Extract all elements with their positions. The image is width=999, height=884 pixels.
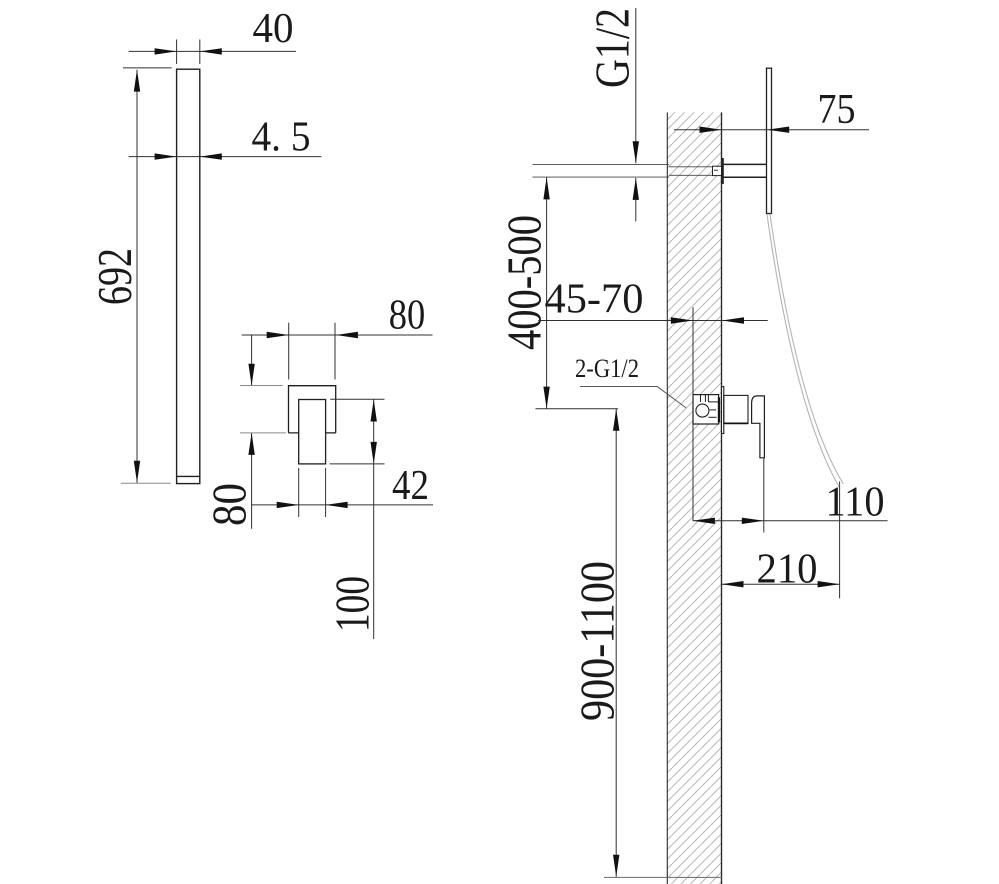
dim 692 [121,68,172,483]
pipe wall flange [722,158,724,184]
wall section with hatching [667,112,721,884]
dim 100 [330,399,385,639]
dim 45-70 [538,320,768,322]
extension ticks above spout panel [177,40,200,65]
svg-text:110: 110 [826,480,885,526]
mixer valve body in wall [693,395,719,424]
valve trim plate side [722,387,724,434]
svg-text:100: 100 [326,576,379,632]
valve body extension line [692,307,694,521]
spout face plate [767,68,772,213]
svg-text:80: 80 [203,483,256,526]
svg-text:42: 42 [392,463,429,509]
dim 110 [693,459,888,533]
dim 80 top [242,323,433,380]
svg-text:80: 80 [389,293,426,339]
svg-text:2-G1/2: 2-G1/2 [575,354,639,383]
dim 75 [674,129,869,131]
valve inlet circle [696,404,709,417]
dim 40 [129,50,296,52]
water stream curve [767,214,844,487]
svg-text:400-500: 400-500 [498,215,551,350]
valve trim front view: square plate [289,386,336,464]
dim 4.5 [129,156,322,158]
dim 80 left [240,335,286,529]
svg-text:900-1100: 900-1100 [571,561,624,721]
dim 400-500 [535,177,618,408]
svg-text:45-70: 45-70 [545,277,644,323]
dim 42 [252,468,433,517]
svg-text:75: 75 [818,87,856,133]
spout panel side view (left) [177,69,200,483]
svg-text:40: 40 [253,6,294,52]
spout pipe [722,164,767,177]
svg-text:G1/2: G1/2 [586,8,639,88]
floor reference line [604,876,722,878]
lever front view [299,400,326,464]
svg-text:692: 692 [88,248,141,305]
dim 900-1100 [615,409,617,877]
handle lever side [752,396,765,458]
cartridge face [718,397,720,422]
G1/2 leader with arrows [635,8,637,221]
dim 210 [722,482,840,599]
handle escutcheon side [724,395,748,423]
svg-text:4. 5: 4. 5 [252,115,311,161]
svg-text:210: 210 [757,547,818,593]
wall fitting G1/2 [713,166,722,175]
supply pipe extension lines [533,165,713,178]
